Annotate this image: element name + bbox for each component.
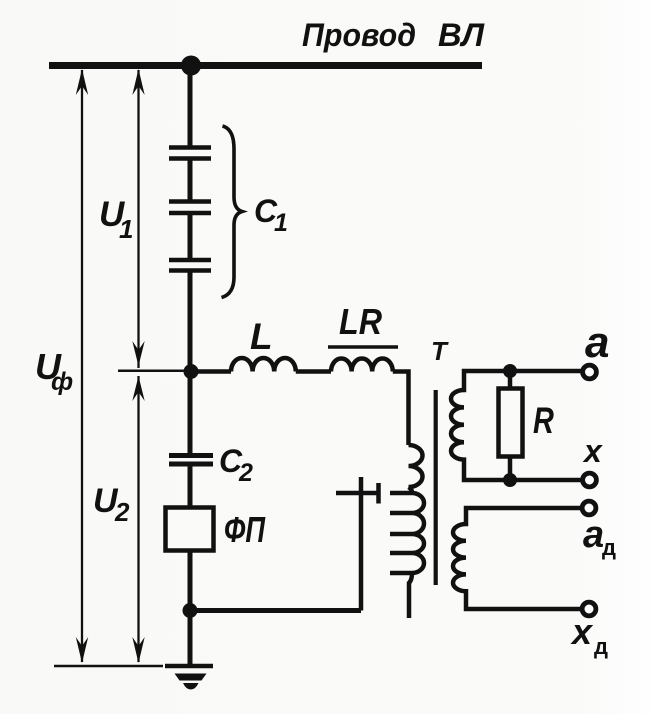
capacitor C1 element 1 bbox=[169, 148, 211, 159]
svg-text:x: x bbox=[582, 433, 603, 469]
transformer secondary winding 2 bbox=[453, 508, 581, 609]
node: junction on power line bbox=[181, 56, 201, 76]
svg-text:2: 2 bbox=[114, 497, 130, 527]
svg-text:ф: ф bbox=[51, 368, 73, 396]
wire: C2 to filter box bbox=[188, 464, 193, 508]
terminal x bbox=[583, 473, 597, 487]
capacitor C2 bbox=[169, 456, 213, 465]
tap tick bbox=[376, 483, 381, 504]
svg-text:LR: LR bbox=[339, 301, 382, 342]
core bar of LR bbox=[328, 345, 398, 349]
label Uf bbox=[35, 346, 73, 396]
transformer core bbox=[434, 390, 438, 585]
terminal a bbox=[583, 365, 597, 379]
svg-text:Провод: Провод bbox=[302, 17, 416, 53]
label a_d bbox=[583, 514, 616, 560]
label x_d bbox=[570, 611, 608, 659]
wire: middle node to C2 bbox=[188, 371, 193, 456]
dimension tick at divider tap bbox=[118, 370, 186, 373]
label L bbox=[250, 316, 273, 357]
dimension line U2 bbox=[132, 376, 144, 663]
wire: C1 to middle node bbox=[188, 271, 193, 373]
svg-text:ФП: ФП bbox=[224, 509, 266, 550]
wire: L to LR bbox=[296, 369, 331, 374]
transformer secondary winding 1 bbox=[451, 371, 582, 480]
box ФП (filter) bbox=[166, 508, 214, 551]
node: R bottom bbox=[503, 473, 517, 487]
dimension line U1 bbox=[132, 69, 144, 368]
wire: filter box to bottom node bbox=[188, 550, 193, 611]
label ФП bbox=[224, 509, 266, 550]
label C1 bbox=[254, 193, 288, 237]
svg-text:ВЛ: ВЛ bbox=[438, 17, 485, 53]
capacitor C1 element 2 bbox=[169, 202, 211, 214]
capacitor C1 element 3 bbox=[169, 260, 211, 271]
wire: tap into primary bbox=[336, 491, 379, 496]
ground reference line bbox=[54, 665, 163, 668]
label T bbox=[431, 336, 449, 366]
svg-text:д: д bbox=[594, 634, 608, 659]
svg-text:x: x bbox=[570, 611, 594, 652]
svg-text:1: 1 bbox=[119, 214, 133, 244]
primary winding turn leads bbox=[390, 493, 412, 573]
svg-text:2: 2 bbox=[238, 459, 253, 487]
inductor L bbox=[231, 358, 296, 372]
svg-text:д: д bbox=[602, 535, 616, 560]
wire: bottom node to ground bbox=[188, 610, 193, 666]
svg-text:a: a bbox=[583, 514, 604, 556]
resistor R bbox=[499, 389, 523, 457]
wire: LR to transformer primary bbox=[393, 372, 409, 446]
inductor LR bbox=[331, 358, 393, 371]
terminal a_d bbox=[582, 501, 596, 515]
node: R top bbox=[503, 364, 517, 378]
wire: R leads bbox=[508, 371, 513, 389]
wire: middle node to L bbox=[191, 369, 231, 374]
wire: between C1 caps 2-3 bbox=[188, 213, 193, 260]
label U2 bbox=[93, 482, 130, 527]
label Провод ВЛ bbox=[302, 17, 485, 53]
svg-text:L: L bbox=[250, 316, 273, 357]
label R bbox=[533, 401, 554, 442]
svg-text:T: T bbox=[431, 336, 449, 366]
label LR bbox=[339, 301, 382, 342]
dimension line Uf bbox=[76, 69, 88, 663]
label x bbox=[582, 433, 603, 469]
label U1 bbox=[99, 195, 133, 244]
node: middle divider tap bbox=[184, 364, 199, 379]
wire: power line (top horizontal) bbox=[49, 62, 482, 69]
label C2 bbox=[219, 443, 253, 487]
brace for C1 bbox=[222, 126, 243, 298]
transformer T primary winding bbox=[409, 445, 425, 618]
terminal x_d bbox=[582, 602, 596, 616]
node: bottom junction bbox=[183, 603, 198, 618]
wire: tap riser bbox=[359, 477, 364, 611]
svg-text:a: a bbox=[585, 318, 609, 367]
ground bbox=[165, 666, 213, 690]
wire: bottom wire from node to tap riser bbox=[190, 608, 361, 613]
svg-text:R: R bbox=[533, 401, 554, 442]
svg-text:1: 1 bbox=[274, 209, 288, 237]
label a bbox=[585, 318, 609, 367]
wire: between C1 caps 1-2 bbox=[188, 159, 193, 202]
wire: top wire to C1 bbox=[188, 62, 193, 148]
